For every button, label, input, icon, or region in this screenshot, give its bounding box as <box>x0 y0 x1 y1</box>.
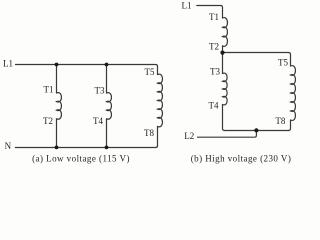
wire right edge upper segment (a) <box>157 66 159 74</box>
svg-text:T1: T1 <box>44 85 54 95</box>
wire branch T3-T4 lower lead (a) <box>106 119 108 148</box>
svg-text:T8: T8 <box>275 116 285 126</box>
svg-text:T4: T4 <box>209 100 219 110</box>
winding T1-T2 (b) <box>223 18 228 47</box>
svg-text:T3: T3 <box>95 85 105 95</box>
svg-text:T2: T2 <box>43 116 53 126</box>
junction dot bottom rail / T2 branch (a) <box>55 146 59 150</box>
winding T3-T4 (a) <box>107 93 112 120</box>
winding T1-T2 (a) <box>57 93 62 120</box>
svg-text:T5: T5 <box>145 67 155 77</box>
wire bottom connector (b) <box>225 130 289 132</box>
wire bottom rail (a) from N to bottom-right corner <box>15 146 157 148</box>
svg-text:T2: T2 <box>209 41 219 51</box>
svg-text:(a) Low voltage (115 V): (a) Low voltage (115 V) <box>32 154 130 164</box>
wire L2 lead with jog up to junction (b) <box>198 131 257 138</box>
wire T4 to bottom-left corner (b) <box>223 105 225 131</box>
svg-text:L1: L1 <box>3 58 13 68</box>
wire top connector from junction to T5 (b) <box>223 53 291 67</box>
wire T8 to bottom-right corner (b) <box>289 120 291 131</box>
svg-text:T4: T4 <box>93 116 103 126</box>
svg-text:T3: T3 <box>210 66 220 76</box>
junction dot node T2/T3 to T5 connector (b) <box>220 51 224 55</box>
wire branch T1-T2 lower lead (a) <box>56 119 58 148</box>
junction dot bottom rail / T4 branch (a) <box>105 146 109 150</box>
svg-text:N: N <box>5 141 12 151</box>
junction dot top rail / T3 branch (a) <box>105 63 109 67</box>
svg-text:(b) High voltage (230 V): (b) High voltage (230 V) <box>191 154 292 164</box>
junction dot top rail / T1 branch (a) <box>55 63 59 67</box>
wire L1 lead (b) <box>197 6 223 19</box>
svg-text:T8: T8 <box>144 128 154 138</box>
wire top rail (a) from L1 to top-right corner <box>16 65 158 67</box>
wire branch T3-T4 upper lead (a) <box>106 65 108 94</box>
wire between T2 and junction node (b) <box>222 46 224 74</box>
wire right edge lower segment (a) <box>157 127 159 146</box>
svg-text:T5: T5 <box>278 57 288 67</box>
winding T3-T4 (b) <box>223 73 228 105</box>
wire branch T1-T2 upper lead (a) <box>56 65 58 94</box>
winding T5-T8 (b) <box>291 66 296 121</box>
junction dot L2 tap on bottom connector (b) <box>254 128 258 132</box>
svg-text:L1: L1 <box>182 1 192 11</box>
svg-text:T1: T1 <box>209 12 219 22</box>
svg-text:L2: L2 <box>184 131 194 141</box>
winding T5-T8 (a) <box>158 74 163 127</box>
